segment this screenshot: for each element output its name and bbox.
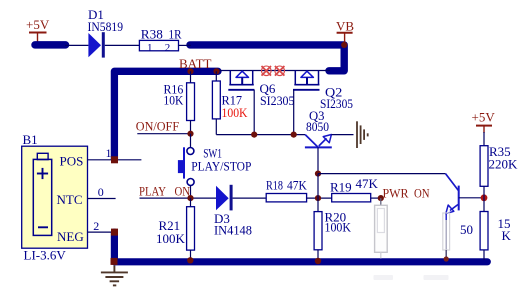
svg-text:LI-3.6V: LI-3.6V bbox=[24, 248, 67, 263]
no-ERC marker X1 bbox=[262, 66, 272, 76]
svg-text:2: 2 bbox=[93, 219, 99, 233]
ground right of Q3 bbox=[357, 121, 368, 148]
svg-text:IN4148: IN4148 bbox=[214, 222, 252, 237]
resistor R38 bbox=[139, 27, 181, 54]
svg-text:NEG: NEG bbox=[57, 229, 84, 244]
power +5V right bbox=[472, 110, 496, 134]
svg-text:SI2305: SI2305 bbox=[260, 93, 295, 108]
svg-text:47K: 47K bbox=[356, 176, 379, 191]
wire to D1 bbox=[65, 44, 88, 46]
battery B1 bbox=[22, 132, 88, 263]
svg-text:SI2305: SI2305 bbox=[320, 96, 353, 111]
node NEG square bbox=[111, 229, 118, 236]
svg-text:IN5819: IN5819 bbox=[88, 19, 124, 34]
resistor 15K bbox=[480, 198, 511, 260]
svg-text:50: 50 bbox=[460, 222, 473, 237]
net ON/OFF bbox=[136, 119, 194, 137]
node R35/15K junction bbox=[481, 194, 488, 201]
wire thick +5V stub bbox=[35, 41, 66, 49]
wire thick battery NEG down bbox=[114, 232, 487, 262]
resistor R20 bbox=[314, 198, 351, 264]
wire thick VB rail bbox=[190, 45, 344, 71]
svg-text:10K: 10K bbox=[164, 93, 184, 108]
node Q6 gate bbox=[251, 132, 257, 138]
node on rail at R16 bbox=[187, 68, 193, 74]
wire PWR net to transistor bbox=[318, 173, 446, 175]
power +5V left bbox=[26, 17, 50, 42]
svg-text:R19: R19 bbox=[330, 180, 352, 195]
svg-text:100K: 100K bbox=[222, 105, 249, 120]
resistor R19 bbox=[330, 176, 384, 202]
resistor 50 (watermark-washed) bbox=[443, 213, 473, 262]
svg-text:+5V: +5V bbox=[26, 17, 50, 32]
wire D1 to R38 bbox=[105, 44, 140, 46]
mosfet Q6 bbox=[228, 71, 294, 135]
no-ERC marker X2 bbox=[275, 66, 285, 76]
svg-text:K: K bbox=[502, 228, 512, 243]
svg-text:0: 0 bbox=[98, 185, 104, 199]
resistor R17 bbox=[212, 71, 248, 134]
resistor PWR pull-down (watermark-washed) bbox=[375, 198, 388, 258]
transistor Q (right, unlabeled) bbox=[446, 174, 485, 214]
svg-text:ON: ON bbox=[414, 185, 430, 200]
svg-text:PWR: PWR bbox=[383, 185, 409, 200]
resistor R16 bbox=[164, 71, 195, 133]
node R18/R19/R20 junction bbox=[315, 195, 321, 201]
resistor R18 bbox=[266, 177, 332, 202]
wire thick BATT rail + battery left vertical bbox=[114, 71, 218, 159]
svg-text:1: 1 bbox=[147, 42, 153, 54]
wire Q3 emitter to ground bbox=[331, 134, 353, 136]
svg-text:PLAY/STOP: PLAY/STOP bbox=[191, 158, 251, 173]
svg-text:47K: 47K bbox=[287, 177, 307, 192]
transistor Q3 bbox=[305, 108, 332, 174]
net PLAY ON bbox=[139, 184, 216, 202]
svg-text:1R: 1R bbox=[169, 27, 182, 42]
svg-text:PLAY: PLAY bbox=[139, 184, 166, 199]
svg-text:100K: 100K bbox=[156, 231, 186, 246]
switch SW1 bbox=[178, 134, 252, 198]
svg-text:8050: 8050 bbox=[306, 119, 329, 134]
svg-text:VB: VB bbox=[336, 19, 354, 34]
svg-text:R18: R18 bbox=[266, 177, 283, 192]
svg-text:2: 2 bbox=[165, 42, 171, 54]
svg-text:POS: POS bbox=[60, 154, 84, 169]
svg-text:ON/OFF: ON/OFF bbox=[136, 119, 179, 134]
node on rail at R17 bbox=[213, 68, 219, 74]
svg-text:+5V: +5V bbox=[472, 110, 496, 125]
svg-text:R38: R38 bbox=[141, 27, 163, 42]
node VB junction bbox=[341, 42, 347, 48]
svg-text:NTC: NTC bbox=[57, 192, 83, 207]
watermark faint text below rail bbox=[374, 275, 449, 280]
ground bottom left bbox=[101, 265, 128, 285]
svg-text:1: 1 bbox=[106, 146, 112, 160]
node Q2 gate bbox=[291, 132, 297, 138]
mosfet Q2 bbox=[293, 71, 353, 135]
resistor R21 bbox=[156, 198, 195, 263]
resistor R35 bbox=[480, 132, 518, 198]
svg-text:B1: B1 bbox=[23, 132, 38, 147]
wire gate net bbox=[216, 134, 305, 136]
svg-text:220K: 220K bbox=[489, 157, 519, 172]
power VB bbox=[336, 19, 354, 45]
node Q3 base / PWR wire junction bbox=[315, 171, 321, 177]
node POS square bbox=[111, 156, 118, 163]
wire BATT rail thin extension to Q2/VB bbox=[217, 70, 330, 72]
svg-text:100K: 100K bbox=[325, 219, 352, 234]
diode D1 bbox=[88, 7, 124, 58]
svg-text:BATT: BATT bbox=[179, 56, 212, 71]
wire Q3 base junction down bbox=[317, 174, 319, 199]
diode D3 bbox=[214, 185, 266, 238]
